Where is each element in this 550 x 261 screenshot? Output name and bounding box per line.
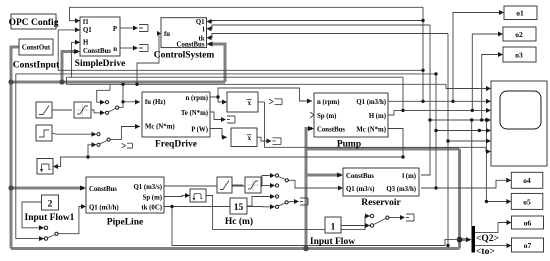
svg-text:Mc (N*m): Mc (N*m) xyxy=(356,127,386,134)
block Reservoir U6 xyxy=(337,168,419,208)
block ConstOut / ConstInput xyxy=(13,39,60,71)
wire switch a output to Reservoir Q1 xyxy=(288,180,341,188)
wire Pump Mc loop to switch2 xyxy=(57,129,403,167)
block FreqDrive U3 xyxy=(142,92,210,150)
wire SimpleDrive P to terminator xyxy=(120,27,133,29)
svg-text:15: 15 xyxy=(234,203,244,213)
wire ConstBus gray vertical left trunk xyxy=(11,47,19,249)
svg-text:f1: f1 xyxy=(83,19,89,26)
svg-text:o7: o7 xyxy=(524,241,532,250)
wire o3 riser xyxy=(482,55,501,121)
wire o2 riser xyxy=(472,34,501,110)
svg-text:SimpleDrive: SimpleDrive xyxy=(75,59,126,69)
svg-text:l: l xyxy=(203,26,205,33)
svg-text:H (m): H (m) xyxy=(369,113,386,120)
svg-text:Input Flow1: Input Flow1 xyxy=(25,213,75,223)
terminator after SWb xyxy=(294,198,308,205)
svg-text:ControlSystem: ControlSystem xyxy=(154,51,215,61)
svg-text:Q1 (m3/s): Q1 (m3/s) xyxy=(346,186,375,193)
wire ConstBus gray right riser to bus selector xyxy=(458,149,461,249)
wire y69 Q1 feedback to SimpleDrive Q1 xyxy=(58,30,423,70)
terminator unconnected below FreqDrive xyxy=(122,143,133,148)
block ramp2 xyxy=(217,177,232,193)
wire Reservoir Q3 to o4 xyxy=(421,180,508,188)
svg-text:Hc (m): Hc (m) xyxy=(225,216,253,227)
wire to ControlSystem tk input xyxy=(208,34,448,38)
wire switch2 output to FreqDrive Mc xyxy=(110,127,140,140)
svg-text:ConstBus: ConstBus xyxy=(317,127,345,134)
block ramp1 xyxy=(36,102,52,118)
wire n branch to mean1 xyxy=(218,97,225,102)
block Pump U4 xyxy=(307,93,388,150)
svg-text:Sp (m): Sp (m) xyxy=(317,113,336,120)
wire y77.2 H feedback to SimpleDrive H xyxy=(72,42,404,77)
wire PipeLine tk output xyxy=(164,206,270,208)
wire switch b output to terminator xyxy=(288,201,294,204)
wire ConstBus gray from ControlSystem xyxy=(209,44,225,82)
wire ramp2 to saturation2 xyxy=(232,184,243,186)
wire mean1 to scope S7 xyxy=(265,102,490,152)
manual switch SWa xyxy=(270,173,288,188)
wire to ControlSystem l input xyxy=(208,25,430,29)
block ControlSystem U2 xyxy=(154,18,215,61)
svg-text:o1: o1 xyxy=(516,9,524,18)
wire vertical x448 time signal xyxy=(447,34,449,246)
block o6 xyxy=(507,216,544,229)
block o7 xyxy=(507,238,544,252)
block step1 xyxy=(36,125,52,141)
wire vertical x436 Q3 feedback up xyxy=(435,74,437,131)
wire P to mean2 xyxy=(210,129,227,138)
terminator for P xyxy=(133,25,148,32)
wire saturation1 to switch1 xyxy=(91,110,100,113)
svg-text:fu: fu xyxy=(164,31,170,38)
block SimpleDrive U1 xyxy=(74,17,125,69)
svg-text:Q3 (m3/h): Q3 (m3/h) xyxy=(386,186,416,193)
terminator after mean1 xyxy=(269,99,282,105)
svg-text:ConstBus: ConstBus xyxy=(89,186,117,193)
terminator after mean2 xyxy=(267,138,282,145)
wire switch1 output to FreqDrive fu xyxy=(119,102,140,108)
wire Te to terminator xyxy=(210,112,221,120)
svg-text:o2: o2 xyxy=(515,30,523,39)
svg-text:x: x xyxy=(248,135,252,142)
block repeating sequence 1 xyxy=(37,159,58,175)
svg-text:Input Flow: Input Flow xyxy=(310,237,355,247)
wire switch3 output to terminator xyxy=(389,217,400,219)
svg-text:PipeLine: PipeLine xyxy=(107,218,143,228)
svg-text:tk (0C): tk (0C) xyxy=(141,205,162,212)
wire mean1 output to terminator xyxy=(258,101,265,103)
wire Pump Q1 output to scope xyxy=(388,100,489,102)
block Input Flow1 const 2 xyxy=(25,195,75,223)
block o3 xyxy=(498,47,536,62)
svg-text:o4: o4 xyxy=(523,176,531,185)
wire Pump H output xyxy=(388,110,489,115)
svg-text:Mc (N*m): Mc (N*m) xyxy=(145,124,175,131)
wire vertical x403 from Pump H xyxy=(402,77,404,110)
wire y84.3 fu distribution xyxy=(67,77,447,84)
block o4 xyxy=(506,172,543,188)
svg-text:<to>: <to> xyxy=(476,247,495,257)
wire switch1 output riser xyxy=(122,84,124,102)
svg-text:FreqDrive: FreqDrive xyxy=(155,140,197,150)
svg-text:ConstBus: ConstBus xyxy=(83,48,111,55)
svg-text:x: x xyxy=(248,100,252,107)
svg-text:Te (N*m): Te (N*m) xyxy=(181,110,208,117)
wire const2 loop to flow switch xyxy=(22,202,44,228)
wire o4 riser xyxy=(471,120,473,226)
wire scope S1 stub xyxy=(446,84,489,88)
manual switch SW2 xyxy=(92,124,141,147)
wire ConstBus gray riser to Reservoir xyxy=(306,174,341,177)
wire vertical x423 Pump Q1 feedback xyxy=(422,7,424,101)
svg-text:Pump: Pump xyxy=(337,140,361,150)
terminator after SW3 xyxy=(400,214,414,221)
svg-text:o3: o3 xyxy=(515,51,523,60)
svg-text:Q1: Q1 xyxy=(196,19,205,26)
block o5 xyxy=(506,193,543,209)
svg-text:Q1 (m3/s): Q1 (m3/s) xyxy=(133,184,162,191)
svg-text:Reservoir: Reservoir xyxy=(361,198,401,208)
junction dots xyxy=(421,19,424,22)
wire to ControlSystem Q1 input xyxy=(208,21,423,22)
bus selector bar xyxy=(466,226,499,257)
wire SimpleDrive n to terminator xyxy=(120,47,133,49)
svg-text:n (rpm): n (rpm) xyxy=(186,95,208,102)
wire step1 to switch2 xyxy=(52,133,92,134)
block Hc const 15 xyxy=(225,198,253,227)
svg-text:n (rpm): n (rpm) xyxy=(317,99,339,106)
block Input Flow const 1 xyxy=(310,217,355,247)
wire mean2 output to terminator xyxy=(257,137,267,141)
svg-text:H: H xyxy=(83,40,89,47)
wire o1 riser xyxy=(453,13,502,102)
wire fu riser to ControlSystem fu xyxy=(137,33,160,84)
svg-text:ConstBus: ConstBus xyxy=(346,173,374,180)
block Scope xyxy=(486,81,547,166)
wire saturation2 to switch a xyxy=(261,185,270,187)
wire ConstBus gray branch to SimpleDrive xyxy=(11,81,225,84)
wire ramp1 to saturation1 xyxy=(52,109,72,111)
wire selector to to o7 xyxy=(475,245,508,247)
block OPC Config xyxy=(9,14,59,29)
wire top feedback y6 to SimpleDrive f1 xyxy=(70,7,424,20)
svg-text:Q1 (m3/h): Q1 (m3/h) xyxy=(89,205,119,212)
wire tk branch down to selector xyxy=(172,207,460,246)
svg-text:P: P xyxy=(113,26,117,33)
wire ConstBus gray mid horizontal to Pump xyxy=(306,148,460,151)
wire scope S5 line from Reservoir Q3 xyxy=(436,131,489,189)
block mean2 xyxy=(222,128,257,147)
svg-text:o5: o5 xyxy=(523,197,531,206)
svg-text:ConstInput: ConstInput xyxy=(13,61,60,71)
wire rate block output to switch3 xyxy=(206,196,370,230)
junction gray dots xyxy=(8,79,13,84)
block repeating sequence 2 after Sp xyxy=(185,189,206,202)
block o2 xyxy=(498,27,536,41)
svg-text:fu (Hz): fu (Hz) xyxy=(145,99,166,106)
manual switch SW1 xyxy=(100,100,140,116)
svg-text:o6: o6 xyxy=(524,219,532,228)
wire FreqDrive n to Pump n xyxy=(210,88,312,101)
svg-text:OPC Config: OPC Config xyxy=(9,18,59,28)
block saturation1 xyxy=(74,102,91,118)
wire const1 to switch3 xyxy=(341,225,370,227)
svg-text:l (m): l (m) xyxy=(402,173,416,180)
wire o5 feed riser xyxy=(486,120,508,202)
terminator for n xyxy=(133,45,148,52)
svg-text:Q1 (m3/h): Q1 (m3/h) xyxy=(356,99,386,106)
wire vertical x16 down to flow switch xyxy=(16,74,44,239)
wire scope S6 stub xyxy=(448,140,489,142)
wire scope S4 line from Reservoir l xyxy=(430,119,489,121)
wire y73.9 Q3 feedback to flow switch xyxy=(16,73,436,75)
svg-text:2: 2 xyxy=(48,200,53,210)
svg-text:n: n xyxy=(113,46,117,53)
block mean1 xyxy=(222,92,258,112)
block o1 xyxy=(499,6,537,20)
svg-text:Q1: Q1 xyxy=(83,27,92,34)
wire 15 const to switch b top xyxy=(247,197,270,207)
block saturation2 xyxy=(245,177,261,193)
manual switch SWb xyxy=(270,194,288,209)
svg-text:Sp (m): Sp (m) xyxy=(143,195,162,202)
wire selector Q2 to o6 xyxy=(475,223,508,233)
svg-text:ConstBus: ConstBus xyxy=(177,42,205,49)
wire PipeLine Q1 m3s to switch a xyxy=(164,176,270,187)
svg-text:<Q2>: <Q2> xyxy=(476,234,499,244)
svg-text:ConstOut: ConstOut xyxy=(22,45,51,52)
wire switch1 top feed xyxy=(97,84,110,102)
terminator for Te xyxy=(221,116,235,123)
wire ConstBus gray bottom trunk xyxy=(11,247,460,250)
manual switch SW3 xyxy=(365,214,389,229)
svg-text:P (W): P (W) xyxy=(191,127,208,134)
svg-text:1: 1 xyxy=(331,223,336,233)
wire PipeLine Sp to rate block xyxy=(164,196,186,197)
wire vertical x430 Reservoir l feedback xyxy=(421,25,430,175)
wire flow switch output to PipeLine Q1 xyxy=(58,207,84,234)
wire ConstBus gray branch to PipeLine xyxy=(11,187,84,190)
block PipeLine U5 xyxy=(80,177,164,228)
manual switch SW0 flow xyxy=(39,225,58,241)
